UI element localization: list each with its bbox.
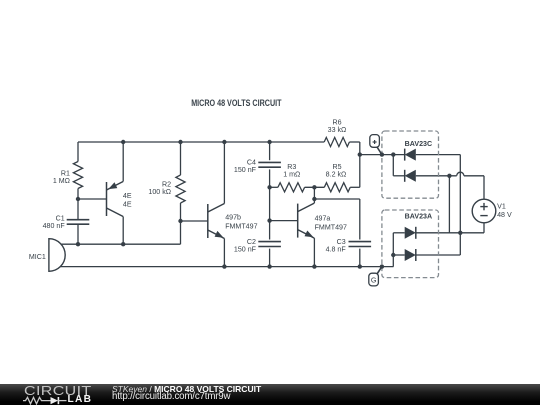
svg-text:100 kΩ: 100 kΩ bbox=[148, 188, 171, 196]
svg-text:150 nF: 150 nF bbox=[234, 246, 257, 254]
svg-text:FMMT497: FMMT497 bbox=[315, 223, 347, 231]
svg-text:BAV23C: BAV23C bbox=[405, 140, 432, 148]
svg-text:V1: V1 bbox=[497, 203, 506, 211]
svg-text:497b: 497b bbox=[225, 214, 241, 222]
svg-text:MICRO 48 VOLTS CIRCUIT: MICRO 48 VOLTS CIRCUIT bbox=[191, 97, 282, 108]
svg-text:1 MΩ: 1 MΩ bbox=[53, 177, 70, 185]
svg-text:MIC1: MIC1 bbox=[29, 253, 46, 261]
svg-text:4.8 nF: 4.8 nF bbox=[326, 246, 347, 254]
svg-text:4E: 4E bbox=[123, 192, 132, 200]
svg-text:48 V: 48 V bbox=[497, 211, 512, 219]
svg-text:150 nF: 150 nF bbox=[234, 166, 257, 174]
svg-text:8.2 kΩ: 8.2 kΩ bbox=[326, 170, 347, 178]
svg-text:FMMT497: FMMT497 bbox=[225, 223, 257, 231]
svg-text:1 mΩ: 1 mΩ bbox=[283, 170, 300, 178]
svg-text:33 kΩ: 33 kΩ bbox=[328, 126, 347, 134]
svg-text:497a: 497a bbox=[315, 215, 331, 223]
svg-text:480 nF: 480 nF bbox=[43, 222, 66, 230]
svg-text:4E: 4E bbox=[123, 200, 132, 208]
svg-text:G: G bbox=[371, 276, 377, 285]
svg-text:BAV23A: BAV23A bbox=[405, 212, 432, 220]
